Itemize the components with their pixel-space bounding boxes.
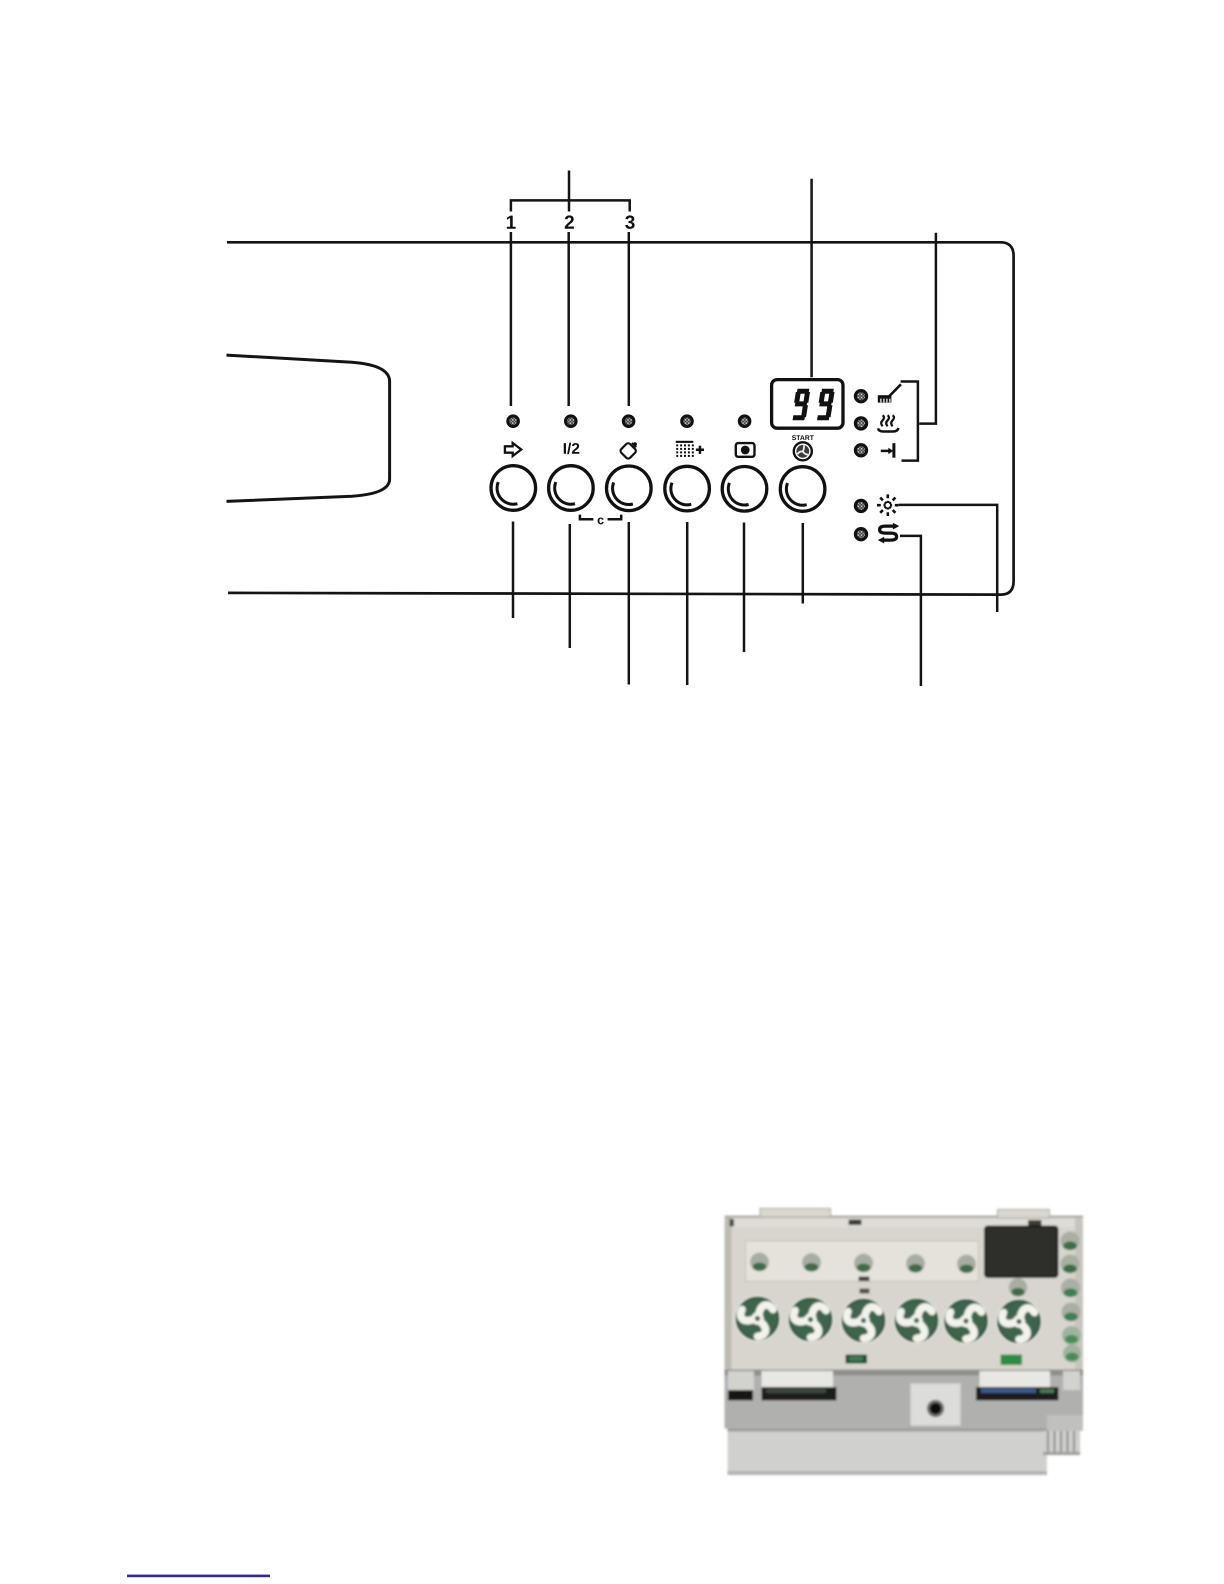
c bracket between buttons 2 and 3: [580, 515, 621, 520]
LED 5: [739, 416, 750, 427]
label 1: [507, 216, 516, 229]
right step of module: [1047, 1415, 1083, 1431]
button 1: [491, 466, 536, 511]
switch hole 5: [957, 1255, 976, 1274]
callout line 2: [567, 232, 570, 406]
LED 4: [682, 416, 693, 427]
display window: [985, 1227, 1058, 1278]
button callout line 3: [628, 522, 631, 685]
photo: electronic control module: [725, 1209, 1084, 1476]
callout line to display: [810, 179, 813, 377]
label 3: [625, 215, 634, 228]
icon arrow (program): [505, 443, 521, 456]
icon bottle (rinse): [619, 438, 640, 459]
left latch tab: [762, 1371, 834, 1387]
right edge hook: [1063, 1371, 1080, 1390]
LED 3: [623, 416, 634, 427]
left connector pins: [762, 1387, 837, 1401]
top tab left: [760, 1209, 831, 1218]
icon dry (steam over dish): [878, 415, 898, 431]
indicator LED rinse aid: [855, 500, 866, 511]
small mark top-left: [730, 1219, 735, 1227]
left edge hook: [728, 1371, 754, 1390]
panel outline: [227, 242, 1014, 594]
button callout line 2: [569, 524, 572, 648]
display digits 99: [793, 391, 833, 418]
encoder knob 1: [734, 1295, 780, 1341]
icon wash (brush): [878, 384, 901, 402]
switch hole 4: [906, 1254, 925, 1273]
indicator bracket: [901, 382, 918, 461]
callout line from salt: [900, 536, 921, 686]
c label: [598, 517, 604, 524]
right connector pins: [976, 1387, 1059, 1401]
encoder knob 4: [893, 1297, 939, 1343]
LED 2: [566, 416, 577, 427]
IC chip green: [846, 1355, 868, 1364]
slot above window: [1028, 1220, 1042, 1226]
buttons group: [491, 466, 825, 512]
button 2: [549, 466, 594, 511]
LED row group: [508, 416, 750, 427]
icon grid+ (extra dry): [676, 441, 704, 457]
base slab: [728, 1429, 1048, 1476]
button callout line 1: [512, 522, 515, 619]
screw hole: [927, 1400, 944, 1417]
hole below window: [1009, 1278, 1027, 1296]
callout line to indicator bracket: [919, 233, 936, 424]
green component: [1001, 1355, 1023, 1366]
encoder knob 2: [787, 1296, 833, 1342]
icon I/2 half load: [564, 443, 580, 455]
encoder knob 3: [840, 1297, 886, 1343]
switch hole 1: [750, 1253, 769, 1272]
display box: [772, 380, 843, 429]
connector zone: [725, 1370, 1084, 1429]
label 2: [565, 215, 574, 228]
icon tablet (rect with dot): [736, 443, 755, 457]
comb teeth bottom right: [1043, 1431, 1080, 1455]
recessed switch strip: [746, 1241, 979, 1282]
top tab right: [998, 1210, 1050, 1219]
footer blue rule: [127, 1575, 270, 1578]
button 3: [607, 466, 652, 511]
center mount tab: [911, 1384, 961, 1426]
icon salt (S arrow): [878, 523, 900, 544]
callout line 3: [628, 232, 631, 406]
START button symbol: [794, 442, 812, 460]
START label: [792, 435, 814, 440]
encoder knob 6: [996, 1298, 1042, 1344]
LED 1: [508, 416, 519, 427]
callout line from rinse aid: [899, 505, 998, 612]
callout stem above bracket: [568, 171, 571, 212]
right latch tab: [980, 1371, 1051, 1387]
button callout line 5: [743, 523, 746, 653]
slot top-middle: [849, 1220, 862, 1226]
encoder knob 5: [943, 1298, 989, 1344]
button 6 START: [780, 467, 825, 512]
button 5: [722, 467, 767, 512]
indicator LED wash: [855, 391, 866, 402]
small marks below hole 3: [859, 1277, 870, 1282]
switch hole 2: [802, 1253, 821, 1272]
button callout line 6: [802, 523, 805, 604]
right column holes: [1061, 1232, 1082, 1363]
left edge block: [728, 1390, 753, 1401]
icon end (arrow to bar): [881, 443, 894, 458]
module body: [725, 1216, 1084, 1370]
callout bracket 1-3: [511, 200, 630, 211]
icon rinse aid (star): [877, 494, 899, 516]
indicator LED dry: [855, 418, 866, 429]
button 4: [665, 466, 710, 511]
handle cutout: [227, 355, 390, 501]
indicator LED salt: [855, 529, 866, 540]
callout line 1: [510, 232, 513, 406]
switch hole 3: [854, 1254, 873, 1273]
indicator LED end: [855, 445, 866, 456]
button callout line 4: [686, 522, 689, 685]
